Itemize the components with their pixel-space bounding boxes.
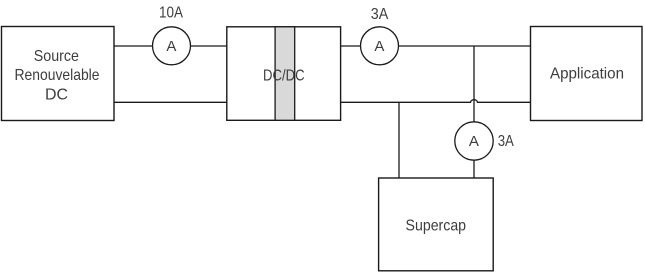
wire ammeter A3 to Supercap — [473, 160, 475, 178]
ammeter A2 — [361, 27, 399, 65]
wire vertical from top wire to ammeter A3 — [473, 46, 475, 122]
svg-text:10A: 10A — [159, 5, 183, 22]
block: DC/DC converter — [227, 27, 341, 121]
svg-text:A: A — [469, 133, 479, 150]
wire source to ammeter A1 — [114, 45, 153, 47]
block: Source Renouvelable DC — [2, 27, 115, 121]
svg-text:DC: DC — [45, 86, 68, 103]
block: Application — [531, 27, 643, 121]
svg-text:3A: 3A — [371, 6, 389, 23]
wire ammeter A1 to DC/DC — [191, 45, 227, 47]
block: Supercap — [379, 178, 494, 271]
svg-text:Supercap: Supercap — [406, 218, 467, 235]
wire source to DC/DC bottom — [114, 101, 227, 103]
wire bottom bus to Supercap — [398, 102, 400, 178]
svg-text:A: A — [374, 38, 384, 55]
wire ammeter A2 to Application — [399, 45, 531, 47]
svg-text:DC/DC: DC/DC — [263, 67, 305, 84]
wire DC/DC to ammeter A2 — [341, 45, 361, 47]
svg-text:A: A — [166, 38, 176, 55]
wire DC/DC bottom to Application with hop over vertical — [341, 100, 531, 103]
ammeter A3 — [455, 122, 493, 160]
svg-text:Renouvelable: Renouvelable — [15, 67, 100, 84]
svg-text:Source: Source — [34, 48, 79, 65]
svg-text:Application: Application — [550, 66, 624, 83]
ammeter A1 — [153, 27, 191, 65]
svg-text:3A: 3A — [498, 133, 514, 150]
